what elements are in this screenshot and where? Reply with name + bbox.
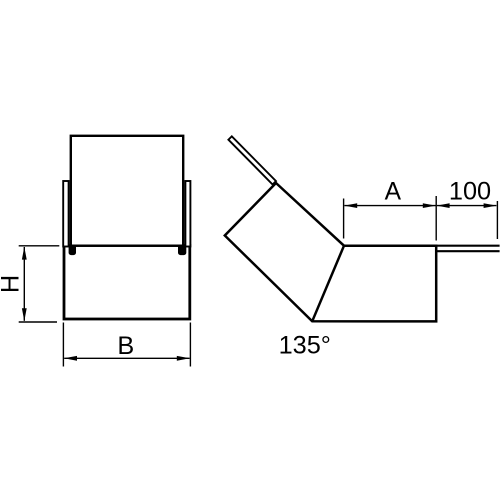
svg-text:H: H bbox=[0, 275, 25, 293]
dimension B arrow left bbox=[64, 356, 77, 361]
dimension B arrow right bbox=[177, 356, 190, 361]
front view: right side rail bbox=[185, 181, 190, 247]
dimension A line bbox=[344, 205, 435, 207]
dimension A arrow left bbox=[344, 203, 357, 208]
dimension B extension line left bbox=[62, 323, 64, 367]
label B bbox=[117, 332, 134, 360]
front view: right clamp foot bbox=[178, 247, 186, 256]
dimension A extension line left bbox=[343, 199, 345, 239]
front view: cover (top rectangle) bbox=[71, 136, 183, 246]
front view: trunking base (bottom rectangle) bbox=[64, 246, 190, 320]
front view: left side rail bbox=[63, 181, 68, 247]
svg-text:A: A bbox=[385, 179, 402, 206]
dimension B extension line right bbox=[189, 323, 191, 367]
side view: incoming duct (thin diagonal) bbox=[228, 136, 276, 184]
dimension 100 arrow left bbox=[437, 203, 450, 208]
side view: outgoing duct upper line bbox=[437, 245, 500, 247]
side view: outgoing duct lower line bbox=[437, 250, 500, 252]
dimension A arrow right bbox=[423, 203, 436, 208]
svg-text:135°: 135° bbox=[279, 332, 331, 360]
dimension H arrow down bbox=[22, 308, 27, 321]
svg-text:100: 100 bbox=[449, 178, 491, 206]
dimension H line bbox=[23, 247, 25, 321]
dimension 100 extension line right bbox=[496, 201, 498, 239]
dimension H arrow up bbox=[22, 247, 27, 260]
dimension H extension line top bbox=[19, 245, 60, 247]
label 135 degrees bbox=[279, 332, 331, 360]
front view: left clamp foot bbox=[69, 247, 76, 256]
label 100 bbox=[449, 178, 491, 206]
dimension B line bbox=[64, 357, 189, 359]
label A bbox=[385, 179, 402, 206]
dimension 100 arrow right bbox=[484, 203, 497, 208]
dimension 100 line bbox=[437, 205, 497, 207]
shared extension line at 100 start bbox=[435, 196, 437, 241]
dimension H extension line bottom bbox=[19, 321, 57, 323]
side view: corner body outline bbox=[225, 183, 436, 321]
side view: miter crease line bbox=[312, 246, 344, 322]
svg-text:B: B bbox=[117, 332, 134, 360]
label H bbox=[0, 275, 25, 293]
